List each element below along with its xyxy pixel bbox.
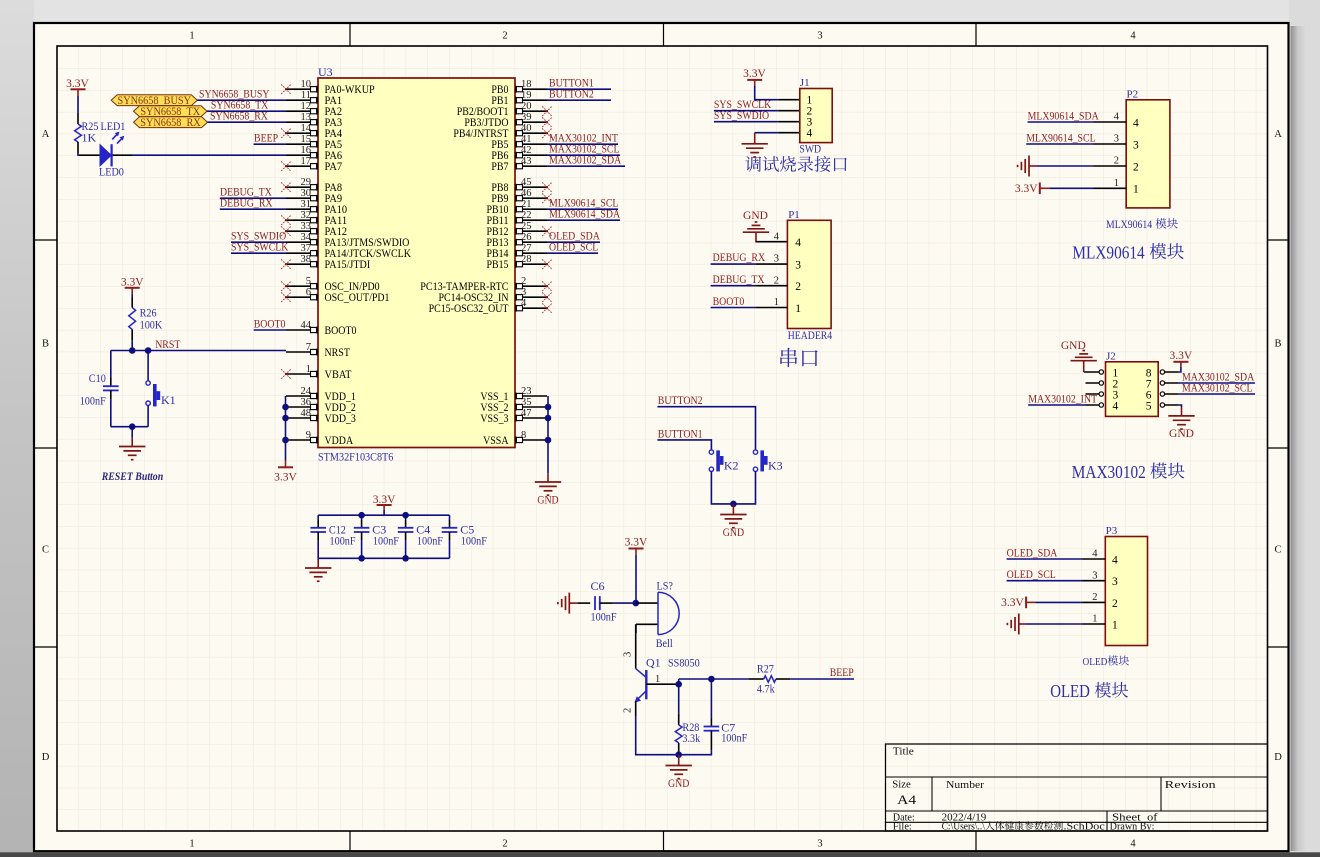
svg-text:Size: Size bbox=[892, 778, 911, 790]
U3 pin 30 PA9 bbox=[286, 188, 342, 205]
connector P1 body bbox=[787, 209, 831, 329]
U3 pin 22 PB11 bbox=[487, 210, 548, 227]
title block text Drawn By bbox=[1110, 822, 1155, 833]
svg-text:100nF: 100nF bbox=[461, 533, 487, 547]
wire NRST bbox=[111, 350, 286, 352]
svg-text:.SchDoc: .SchDoc bbox=[1064, 822, 1106, 833]
label OLED module big bbox=[1050, 681, 1128, 701]
net label BUTTON2 bbox=[658, 393, 703, 407]
svg-text:MLX90614_SDA: MLX90614_SDA bbox=[549, 207, 620, 221]
U3 pin 17 PA7 bbox=[286, 156, 342, 173]
no-connect X bbox=[542, 193, 552, 203]
wire VSS bus bbox=[547, 396, 549, 473]
svg-text:40: 40 bbox=[521, 123, 532, 134]
U3 pin 33 PA12 bbox=[286, 221, 347, 238]
svg-text:9: 9 bbox=[306, 430, 311, 441]
title block text File bbox=[893, 821, 1106, 833]
resistor R28 bbox=[675, 684, 700, 755]
svg-text:B: B bbox=[42, 339, 49, 350]
junction bbox=[633, 600, 640, 607]
svg-text:VSSA: VSSA bbox=[483, 435, 509, 447]
resistor R25 bbox=[75, 113, 99, 153]
power 3.3V bbox=[274, 461, 297, 484]
port SYN6658_TX bbox=[134, 106, 208, 118]
svg-text:2: 2 bbox=[774, 275, 779, 286]
svg-text:BUTTON1: BUTTON1 bbox=[658, 426, 703, 440]
svg-text:J1: J1 bbox=[800, 77, 810, 89]
wire bbox=[254, 143, 286, 145]
wire bbox=[1036, 601, 1083, 603]
J1 pin 2 bbox=[807, 106, 813, 118]
power 3.3V bbox=[1001, 597, 1035, 609]
wire bbox=[1007, 558, 1083, 560]
capacitor C10 bbox=[80, 371, 119, 408]
U3 pin 4 PC15-OSC32_OUT bbox=[429, 298, 547, 315]
connector P2 body bbox=[1126, 88, 1170, 207]
U3 pin 41 PB5 bbox=[491, 134, 547, 151]
label RESET Button bbox=[101, 469, 164, 483]
svg-text:14: 14 bbox=[301, 123, 312, 134]
svg-text:SYN6658_RX: SYN6658_RX bbox=[140, 117, 201, 129]
transistor Q1 bbox=[635, 656, 700, 703]
svg-text:PB15: PB15 bbox=[487, 259, 509, 271]
U3 pin 14 PA4 bbox=[286, 123, 342, 140]
svg-text:42: 42 bbox=[521, 145, 532, 156]
svg-text:C: C bbox=[42, 545, 49, 556]
svg-text:2: 2 bbox=[521, 276, 526, 287]
svg-text:P3: P3 bbox=[1106, 525, 1118, 537]
wire bbox=[755, 86, 800, 100]
net label MLX90614_SDA bbox=[1028, 108, 1099, 122]
svg-text:GND: GND bbox=[668, 776, 690, 790]
net label SYS_SWDIO bbox=[231, 229, 286, 243]
svg-text:GND: GND bbox=[1169, 428, 1194, 440]
title block text Title bbox=[893, 745, 914, 757]
svg-text:35: 35 bbox=[521, 397, 532, 408]
svg-text:3: 3 bbox=[774, 254, 779, 265]
designator U3 bbox=[318, 65, 333, 79]
wire bbox=[1050, 187, 1094, 189]
capacitor C7 bbox=[679, 679, 748, 755]
U3 pin 45 PB8 bbox=[491, 177, 547, 194]
svg-text:File:: File: bbox=[893, 822, 912, 833]
title block text Sheet of bbox=[1112, 811, 1158, 823]
no-connect X bbox=[281, 369, 291, 379]
net label SYN6658_TX bbox=[211, 98, 269, 112]
J2 pin 5 bbox=[1146, 400, 1179, 412]
svg-text:PC15-OSC32_OUT: PC15-OSC32_OUT bbox=[429, 303, 509, 315]
net label OLED_SCL bbox=[549, 240, 598, 254]
wire bbox=[755, 241, 787, 243]
svg-text:VSS_3: VSS_3 bbox=[480, 413, 508, 425]
J1 pin 3 bbox=[807, 117, 813, 129]
wire bbox=[1037, 165, 1094, 167]
net label MAX30102_SCL bbox=[1182, 381, 1253, 395]
no-connect X bbox=[542, 292, 552, 302]
svg-text:100nF: 100nF bbox=[591, 610, 617, 624]
frame column ticks bbox=[350, 23, 976, 851]
net label DEBUG_TX bbox=[220, 185, 272, 199]
wire bbox=[208, 121, 287, 123]
svg-text:PA15/JTDI: PA15/JTDI bbox=[325, 259, 371, 271]
U3 pin 18 PB0 bbox=[491, 79, 547, 96]
pin number 2 bbox=[623, 708, 634, 713]
svg-text:BOOT0: BOOT0 bbox=[325, 325, 357, 337]
U3 pin 7 NRST bbox=[286, 342, 350, 359]
port SYN6658_BUSY bbox=[111, 95, 197, 107]
wire bbox=[547, 219, 620, 221]
wire bbox=[711, 263, 788, 265]
junction bbox=[708, 676, 715, 683]
label MAX30102 module big bbox=[1072, 462, 1185, 482]
svg-text:R27: R27 bbox=[757, 662, 774, 676]
no-connect X bbox=[542, 281, 552, 291]
svg-text:4: 4 bbox=[1112, 554, 1118, 566]
svg-text:21: 21 bbox=[521, 199, 532, 210]
svg-text:K3: K3 bbox=[768, 458, 783, 472]
wire emitter bbox=[636, 701, 679, 755]
connector P3 body bbox=[1105, 525, 1147, 646]
U3 pin 12 PA2 bbox=[286, 101, 342, 118]
svg-text:4: 4 bbox=[521, 298, 527, 309]
svg-text:100nF: 100nF bbox=[417, 533, 443, 547]
wire bbox=[790, 678, 854, 680]
svg-text:31: 31 bbox=[301, 199, 312, 210]
svg-text:4: 4 bbox=[1092, 549, 1098, 560]
no-connect X bbox=[281, 292, 291, 302]
svg-text:2: 2 bbox=[795, 281, 801, 293]
svg-text:2: 2 bbox=[502, 839, 507, 850]
svg-text:B: B bbox=[1274, 339, 1281, 350]
svg-text:OLED: OLED bbox=[1083, 656, 1108, 668]
no-connect X bbox=[542, 259, 552, 269]
no-connect X bbox=[281, 84, 291, 94]
svg-text:U3: U3 bbox=[318, 65, 333, 79]
ground bbox=[558, 593, 578, 614]
svg-text:3.3V: 3.3V bbox=[743, 68, 766, 80]
svg-text:1: 1 bbox=[189, 839, 194, 850]
svg-text:1: 1 bbox=[655, 674, 660, 685]
svg-text:OLED_SDA: OLED_SDA bbox=[1007, 545, 1058, 559]
U3 pin 36 VDD_2 bbox=[286, 397, 356, 414]
J2 pin 1 bbox=[1086, 367, 1119, 379]
capacitor C4 bbox=[398, 515, 443, 558]
svg-text:4: 4 bbox=[807, 128, 813, 140]
svg-text:GND: GND bbox=[537, 493, 559, 507]
U3 pin 27 PB14 bbox=[487, 243, 548, 260]
wire bbox=[657, 440, 711, 450]
wire bbox=[220, 208, 286, 210]
svg-text:18: 18 bbox=[521, 79, 532, 90]
svg-text:MAX30102_SCL: MAX30102_SCL bbox=[1182, 381, 1253, 395]
ground bbox=[535, 473, 561, 506]
pin number 3 bbox=[623, 652, 634, 657]
junction bbox=[282, 404, 289, 411]
svg-text:A: A bbox=[42, 129, 50, 140]
svg-text:C10: C10 bbox=[89, 371, 106, 385]
svg-text:P1: P1 bbox=[788, 209, 800, 221]
net label SYS_SWCLK bbox=[231, 240, 289, 254]
svg-text:D: D bbox=[42, 752, 50, 763]
svg-text:3: 3 bbox=[795, 260, 801, 272]
title block text Number bbox=[946, 779, 984, 791]
wire bbox=[231, 252, 286, 254]
net label BOOT0 bbox=[713, 294, 745, 308]
wire bbox=[547, 143, 618, 145]
net label BUTTON1 bbox=[549, 76, 594, 90]
label OLED module small bbox=[1083, 655, 1130, 668]
net label GND bbox=[743, 210, 768, 222]
svg-text:OLED_SCL: OLED_SCL bbox=[1007, 567, 1056, 581]
P3 pin 4 bbox=[1083, 549, 1119, 567]
net label SYS_SWCLK bbox=[714, 97, 772, 111]
junction bbox=[358, 555, 365, 562]
resistor R27 bbox=[749, 662, 791, 696]
svg-text:1: 1 bbox=[189, 31, 194, 42]
svg-text:DEBUG_TX: DEBUG_TX bbox=[713, 272, 765, 286]
svg-text:4.7k: 4.7k bbox=[757, 681, 775, 695]
U3 pin 35 VSS_2 bbox=[480, 397, 547, 414]
net label NRST bbox=[155, 337, 181, 351]
wire cap rail bottom bbox=[318, 557, 449, 559]
svg-text:P2: P2 bbox=[1127, 88, 1139, 100]
buzzer LS? bbox=[636, 578, 679, 649]
svg-text:GND: GND bbox=[1061, 340, 1086, 352]
svg-text:A: A bbox=[1274, 129, 1282, 140]
net label GND bbox=[1061, 340, 1086, 352]
junction bbox=[129, 423, 136, 430]
svg-text:RESET Button: RESET Button bbox=[101, 469, 164, 483]
ground flipped bbox=[1071, 351, 1097, 373]
J1 pin 1 bbox=[807, 95, 813, 107]
resistor R26 bbox=[129, 298, 163, 341]
no-connect X bbox=[542, 106, 552, 116]
svg-text:NRST: NRST bbox=[325, 347, 350, 359]
wire bbox=[613, 602, 636, 604]
U3 pin 38 PA15/JTDI bbox=[286, 254, 370, 271]
svg-text:45: 45 bbox=[521, 177, 532, 188]
svg-text:100nF: 100nF bbox=[721, 730, 747, 744]
U3 pin 47 VSS_3 bbox=[480, 408, 547, 425]
svg-text:C: C bbox=[1274, 545, 1281, 556]
label MLX90614 module big bbox=[1072, 242, 1184, 262]
svg-text:4: 4 bbox=[1130, 839, 1136, 850]
svg-text:3.3V: 3.3V bbox=[274, 472, 297, 484]
net label BOOT0 bbox=[254, 316, 286, 330]
svg-text:100K: 100K bbox=[140, 318, 163, 332]
svg-text:15: 15 bbox=[301, 134, 312, 145]
svg-text:SS8050: SS8050 bbox=[668, 656, 700, 670]
svg-text:MLX90614_SDA: MLX90614_SDA bbox=[1028, 108, 1099, 122]
wire VDD bus bbox=[285, 396, 287, 461]
svg-text:HEADER4: HEADER4 bbox=[788, 330, 833, 342]
no-connect X bbox=[281, 226, 291, 236]
U3 pin 46 PB9 bbox=[491, 188, 547, 205]
svg-text:17: 17 bbox=[301, 156, 312, 167]
U3 pin 42 PB6 bbox=[491, 145, 547, 162]
svg-text:3: 3 bbox=[1092, 570, 1097, 581]
no-connect X bbox=[542, 128, 552, 138]
P3 pin 3 bbox=[1083, 570, 1119, 588]
wire bbox=[547, 154, 620, 156]
svg-text:VDD_3: VDD_3 bbox=[325, 413, 357, 425]
net label OLED_SDA bbox=[1007, 545, 1058, 559]
svg-text:K2: K2 bbox=[724, 458, 739, 472]
svg-text:PB7: PB7 bbox=[491, 161, 508, 173]
no-connect X bbox=[281, 215, 291, 225]
U3 pin 1 VBAT bbox=[286, 364, 352, 381]
P2 pin 3 bbox=[1094, 134, 1140, 152]
net label DEBUG_RX bbox=[220, 196, 273, 210]
svg-text:2: 2 bbox=[1092, 592, 1097, 603]
svg-text:Bell: Bell bbox=[656, 636, 674, 650]
svg-text:Drawn By:: Drawn By: bbox=[1110, 822, 1155, 833]
no-connect X bbox=[281, 128, 291, 138]
wire bbox=[635, 555, 637, 603]
wire bbox=[547, 165, 625, 167]
svg-text:44: 44 bbox=[301, 320, 312, 331]
svg-text:1: 1 bbox=[1112, 619, 1118, 631]
label 调试烧录接口 bbox=[745, 156, 847, 172]
P2 pin 4 bbox=[1094, 112, 1140, 130]
wire bbox=[131, 295, 133, 298]
capacitor C12 bbox=[310, 515, 355, 558]
svg-text:36: 36 bbox=[301, 397, 312, 408]
svg-text:SYN6658_RX: SYN6658_RX bbox=[210, 109, 268, 123]
svg-text:39: 39 bbox=[521, 112, 532, 123]
junction bbox=[358, 512, 365, 519]
P1 pin 3 bbox=[774, 254, 801, 272]
svg-text:22: 22 bbox=[521, 210, 532, 221]
no-connect X bbox=[542, 117, 552, 127]
label HEADER4 bbox=[788, 330, 833, 342]
svg-text:GND: GND bbox=[743, 210, 768, 222]
svg-text:6: 6 bbox=[306, 287, 311, 298]
svg-text:2: 2 bbox=[623, 708, 634, 713]
U3 pin 43 PB7 bbox=[491, 156, 547, 173]
svg-text:3: 3 bbox=[817, 839, 822, 850]
svg-text:19: 19 bbox=[521, 90, 532, 101]
title block text Date bbox=[893, 811, 987, 823]
svg-text:Revision: Revision bbox=[1165, 779, 1217, 791]
junction bbox=[675, 751, 682, 758]
svg-text:4: 4 bbox=[1130, 31, 1136, 42]
wire bbox=[1179, 367, 1181, 372]
svg-text:D: D bbox=[1274, 752, 1282, 763]
wire bbox=[147, 351, 149, 381]
svg-text:Q1: Q1 bbox=[646, 656, 661, 670]
svg-text:3.3k: 3.3k bbox=[682, 731, 700, 745]
svg-text:46: 46 bbox=[521, 188, 532, 199]
connector J2 body bbox=[1106, 350, 1159, 416]
U3 pin 29 PA8 bbox=[286, 177, 342, 194]
svg-text:4: 4 bbox=[1114, 112, 1120, 123]
svg-text:5: 5 bbox=[1146, 400, 1152, 412]
capacitor C5 bbox=[442, 515, 487, 558]
ground bbox=[1018, 156, 1037, 177]
wire bbox=[110, 399, 112, 427]
power 3.3V bbox=[66, 78, 89, 96]
svg-text:8: 8 bbox=[521, 430, 526, 441]
P1 pin 1 bbox=[774, 297, 801, 315]
wire bbox=[1179, 405, 1182, 407]
LED LED1 bbox=[79, 119, 133, 179]
svg-text:1K: 1K bbox=[82, 131, 97, 145]
wire bbox=[1028, 121, 1094, 123]
net label MAX30102_SCL bbox=[549, 142, 620, 156]
value STM32F103C8T6 bbox=[318, 450, 393, 464]
net label OLED_SDA bbox=[549, 229, 600, 243]
label MLX90614 module small bbox=[1106, 218, 1178, 231]
svg-text:7: 7 bbox=[306, 342, 311, 353]
U3 pin 13 PA3 bbox=[286, 112, 342, 129]
junction bbox=[675, 681, 682, 688]
ground bbox=[1168, 407, 1194, 440]
svg-text:1: 1 bbox=[1133, 184, 1139, 196]
wire bbox=[1007, 580, 1083, 582]
svg-text:13: 13 bbox=[301, 112, 312, 123]
svg-text:3: 3 bbox=[1114, 134, 1119, 145]
svg-text:1: 1 bbox=[1092, 614, 1097, 625]
svg-text:SYS_SWDIO: SYS_SWDIO bbox=[714, 108, 769, 122]
capacitor C6 bbox=[578, 579, 617, 624]
junction bbox=[282, 415, 289, 422]
wire bbox=[1084, 371, 1086, 373]
no-connect X bbox=[542, 182, 552, 192]
svg-text:OLED: OLED bbox=[1050, 681, 1090, 701]
svg-text:2: 2 bbox=[502, 31, 507, 42]
junction bbox=[402, 512, 409, 519]
svg-text:NRST: NRST bbox=[155, 337, 181, 351]
svg-text:BEEP: BEEP bbox=[254, 131, 278, 145]
U3 pin 37 PA14/JTCK/SWCLK bbox=[286, 243, 412, 260]
U3 pin 8 VSSA bbox=[483, 430, 547, 447]
U3 pin 16 PA6 bbox=[286, 145, 342, 162]
wire bbox=[197, 99, 286, 101]
wire bbox=[547, 208, 618, 210]
svg-text:30: 30 bbox=[301, 188, 312, 199]
junction bbox=[145, 347, 152, 354]
switch K2 bbox=[709, 450, 738, 472]
wire cap rail top bbox=[318, 514, 449, 516]
svg-text:4: 4 bbox=[795, 237, 801, 249]
wire bbox=[679, 678, 749, 680]
svg-text:38: 38 bbox=[301, 254, 312, 265]
svg-text:Number: Number bbox=[946, 779, 984, 791]
svg-text:48: 48 bbox=[301, 408, 312, 419]
U3 pin 48 VDD_3 bbox=[286, 408, 356, 425]
svg-text:4: 4 bbox=[1113, 400, 1119, 412]
svg-text:3.3V: 3.3V bbox=[625, 537, 648, 549]
svg-text:LED0: LED0 bbox=[99, 165, 124, 179]
svg-text:1: 1 bbox=[795, 303, 801, 315]
svg-text:4: 4 bbox=[774, 231, 780, 242]
wire bbox=[714, 121, 800, 123]
switch K1 bbox=[146, 381, 176, 407]
wire bbox=[711, 285, 788, 287]
frame row labels bbox=[42, 129, 1283, 763]
U3 pin 19 PB1 bbox=[491, 90, 547, 107]
svg-text:4: 4 bbox=[1133, 117, 1139, 129]
wire bbox=[220, 197, 286, 199]
svg-text:2: 2 bbox=[1112, 598, 1118, 610]
wire bbox=[711, 472, 755, 504]
svg-text:BUTTON2: BUTTON2 bbox=[549, 87, 594, 101]
switch K3 bbox=[753, 450, 782, 472]
net label MAX30102_INT bbox=[1028, 391, 1097, 405]
svg-text:12: 12 bbox=[301, 101, 312, 112]
svg-text:BOOT0: BOOT0 bbox=[254, 316, 286, 330]
